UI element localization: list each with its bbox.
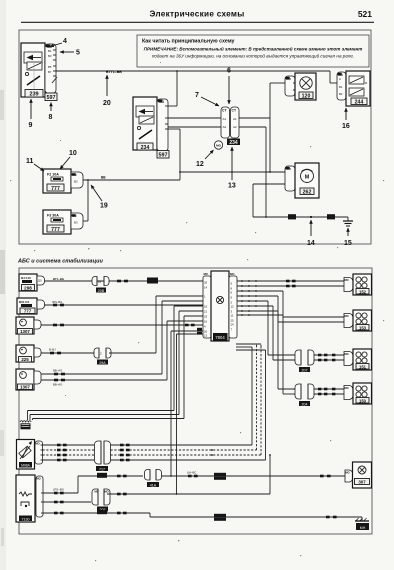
svg-text:6: 6	[227, 68, 231, 75]
svg-text:MO: MO	[345, 314, 349, 318]
svg-text:1307: 1307	[20, 385, 30, 390]
wire fuse F2 to relay net	[83, 176, 180, 181]
wires steering to CP2	[43, 444, 95, 462]
svg-text:15: 15	[344, 240, 352, 247]
svg-text:ПРИМЕЧАНИЕ: Вспомогательный эл: ПРИМЕЧАНИЕ: Вспомогательный элемент: В п…	[144, 46, 363, 52]
svg-text:A: A	[339, 77, 341, 81]
fuse F2 10A box 777	[43, 169, 71, 193]
callout 13	[228, 147, 236, 190]
svg-text:5: 5	[76, 50, 80, 57]
wheel sensor 1 box 152	[353, 274, 372, 295]
fuse F3 30A box 777	[43, 210, 71, 234]
svg-text:Электрические схемы: Электрические схемы	[149, 10, 244, 19]
svg-text:B3: B3	[74, 221, 78, 225]
wheel sensor 2 box 153	[353, 310, 372, 331]
callout 10	[60, 150, 77, 169]
ECU right pin strip	[229, 272, 237, 338]
ground symbol MH10	[20, 421, 31, 430]
svg-text:597: 597	[47, 95, 56, 101]
svg-text:24: 24	[231, 322, 235, 326]
svg-text:A2: A2	[223, 125, 227, 129]
ECU left pin strip	[203, 272, 211, 338]
steering angle sensor box	[17, 440, 35, 470]
wire CP_B east with corner up to ECU	[109, 296, 203, 353]
wire motor pin2 to rail	[253, 184, 285, 217]
callout 9	[29, 99, 33, 129]
wire L4 row to CP_B	[41, 348, 94, 355]
svg-text:14: 14	[204, 285, 208, 289]
svg-text:B2: B2	[74, 180, 78, 184]
svg-text:B3: B3	[48, 54, 52, 58]
svg-text:150: 150	[359, 398, 367, 403]
heater connector strip	[337, 72, 346, 100]
svg-text:B7: B7	[48, 70, 52, 74]
ECU left bottom stubs to steering risers	[170, 328, 203, 495]
ECU wire to CP_R4 row a	[237, 310, 296, 389]
ground bundle rows	[28, 306, 204, 420]
relay 239 body	[21, 43, 45, 97]
connector 597 label	[45, 93, 57, 101]
svg-text:1307: 1307	[20, 329, 30, 334]
225 connector bump	[34, 348, 41, 357]
wire CP5 east riser	[107, 454, 271, 495]
motor 262	[295, 163, 319, 198]
svg-text:204: 204	[302, 402, 308, 406]
svg-text:12: 12	[196, 161, 204, 168]
svg-text:8: 8	[49, 114, 53, 121]
ECU label 7804	[214, 334, 228, 341]
1307b connector bump	[34, 371, 41, 384]
lamp 120	[295, 73, 316, 100]
wire relay234 pin1 up to BTT1 net	[168, 71, 177, 106]
svg-text:151: 151	[359, 364, 367, 369]
connector pair CP2	[95, 441, 111, 471]
svg-text:A1: A1	[223, 117, 227, 121]
svg-text:A2: A2	[233, 125, 237, 129]
svg-text:13: 13	[228, 183, 236, 190]
steering sensor connector strip	[35, 441, 43, 464]
top schematic frame	[19, 30, 371, 244]
svg-text:10: 10	[69, 150, 77, 157]
svg-text:298: 298	[24, 286, 32, 291]
callout 14	[307, 220, 315, 247]
svg-text:225: 225	[21, 357, 29, 362]
ECU main box	[211, 271, 229, 341]
svg-text:MO: MO	[95, 490, 99, 494]
svg-text:F2 10A: F2 10A	[47, 173, 59, 177]
svg-text:7: 7	[195, 92, 199, 99]
svg-text:M08A: M08A	[21, 464, 31, 468]
bottom diagram frame	[19, 268, 372, 534]
callout 19	[91, 185, 108, 210]
yaw sensor connector strip	[36, 476, 44, 517]
svg-text:41A: 41A	[150, 483, 157, 487]
connector pair CP_B	[94, 348, 111, 365]
switch box 1307a	[16, 317, 34, 334]
wires CP2 east to vertical risers	[111, 444, 266, 462]
svg-text:B1: B1	[48, 49, 52, 53]
node MO circle	[214, 141, 222, 149]
svg-text:234: 234	[229, 140, 238, 146]
svg-text:307: 307	[358, 480, 366, 485]
svg-text:MO: MO	[345, 386, 349, 390]
svg-text:A1: A1	[233, 117, 237, 121]
svg-text:B–BJ: B–BJ	[49, 348, 56, 352]
fuse F3 connector bump	[71, 213, 83, 229]
wire yaw row2 to CP5	[44, 501, 92, 503]
switch box 1307b	[16, 369, 34, 390]
svg-text:MO: MO	[346, 471, 350, 475]
svg-text:АБС и система стабилизации: АБС и система стабилизации	[17, 258, 104, 265]
svg-text:120: 120	[302, 94, 311, 100]
svg-text:11: 11	[231, 313, 234, 317]
wires CP_R3 to wheel sensor 3	[314, 354, 345, 362]
wires CP_R4 to wheel sensor 4	[314, 388, 345, 396]
heater 244	[346, 71, 370, 106]
fuse 777b connector bump	[37, 300, 45, 309]
callout 7	[195, 92, 219, 106]
svg-text:12: 12	[231, 304, 235, 308]
header rule	[21, 21, 374, 23]
wire relay234 to connector CT pin A2	[168, 126, 222, 128]
svg-text:262: 262	[303, 190, 312, 196]
svg-text:20B: 20B	[98, 289, 105, 293]
svg-text:244: 244	[355, 100, 364, 106]
ground symbol bottom right	[355, 518, 369, 530]
wire relay234 pin4 down	[168, 129, 180, 180]
svg-text:LPS–BG: LPS–BG	[53, 488, 64, 492]
wires L5 rows with corners up to ECU	[41, 301, 203, 375]
svg-text:777: 777	[51, 227, 60, 233]
svg-text:IPN–BG: IPN–BG	[52, 300, 62, 304]
svg-text:521: 521	[358, 9, 372, 19]
svg-text:152: 152	[359, 289, 367, 294]
connector pair CP_R3	[295, 350, 314, 372]
wire relay239 to heater (net BTT1-BB)	[56, 70, 338, 83]
wire L2 row	[45, 300, 204, 307]
relay 234 connector strip 597	[157, 99, 168, 151]
svg-text:BT1–BG: BT1–BG	[53, 277, 64, 281]
wire motor pin1	[179, 171, 285, 173]
ECU wire to CP_R3 row b	[237, 305, 296, 360]
svg-text:597: 597	[159, 153, 168, 159]
svg-text:29A: 29A	[99, 361, 106, 365]
note box	[137, 35, 369, 67]
relay 234 label	[137, 143, 153, 151]
svg-text:2E: 2E	[98, 280, 102, 284]
callout 15	[344, 228, 352, 247]
svg-text:B2: B2	[339, 92, 343, 96]
svg-text:777: 777	[24, 309, 32, 314]
fuse 298 connector bump	[37, 276, 45, 285]
wire L3 row	[41, 324, 203, 327]
svg-text:717: 717	[99, 467, 105, 471]
svg-text:MH: MH	[360, 526, 366, 530]
connector pair CP_R4	[295, 384, 314, 406]
svg-text:11: 11	[26, 158, 34, 165]
svg-text:B51 K2: B51 K2	[19, 300, 30, 304]
wheel sensor 1 connector	[344, 278, 353, 292]
svg-text:MO: MO	[36, 442, 40, 446]
svg-text:BB–AG: BB–AG	[53, 369, 62, 373]
svg-text:M: M	[305, 174, 310, 180]
callout 16	[342, 108, 350, 130]
connector CT label 234	[227, 139, 240, 147]
callout 4	[50, 38, 67, 47]
svg-text:21: 21	[204, 309, 208, 313]
svg-text:MO: MO	[216, 144, 221, 148]
wire CT right pin1 to lamp and motor	[239, 83, 285, 172]
svg-text:MO: MO	[105, 490, 109, 494]
connector pair CP5	[92, 489, 110, 512]
unit 307 box	[353, 462, 372, 488]
switch box 225	[16, 345, 34, 362]
connector pair CP3	[145, 470, 162, 488]
risers steering wires to ECU bottom	[236, 344, 266, 460]
wheel sensor 2 connector	[344, 314, 353, 328]
svg-text:10: 10	[204, 304, 208, 308]
svg-text:MO: MO	[37, 477, 41, 481]
svg-text:BB–AG: BB–AG	[53, 382, 62, 386]
lamp connector	[285, 76, 296, 96]
svg-text:207: 207	[302, 368, 308, 372]
svg-text:20: 20	[103, 100, 111, 107]
svg-text:7130: 7130	[22, 517, 30, 521]
callout 11	[26, 158, 44, 171]
ECU right stub wires with dots	[237, 280, 344, 283]
svg-text:BTT1–BB: BTT1–BB	[106, 70, 122, 74]
svg-text:подает на 36У информацию, на о: подает на 36У информацию, на основании к…	[152, 53, 354, 59]
yaw rate sensor box	[16, 475, 35, 522]
svg-text:7804: 7804	[215, 335, 225, 340]
svg-text:16: 16	[204, 319, 208, 323]
ECU wire to wheel sensor 2 row b	[237, 295, 344, 322]
callout 20	[103, 75, 111, 107]
relay 239 label	[25, 90, 43, 98]
unit 307 connector bump	[345, 470, 353, 482]
fuse box 777b	[17, 298, 37, 314]
ground rail	[253, 214, 348, 219]
ECU wire to CP_R4 row b	[237, 314, 296, 394]
svg-text:B1: B1	[339, 85, 343, 89]
1307a connector bump	[34, 320, 41, 329]
svg-text:LM–BC: LM–BC	[187, 471, 196, 475]
callout 6	[227, 68, 231, 105]
svg-text:4: 4	[63, 38, 67, 45]
wire CT right pin2 to ground rail	[239, 127, 266, 217]
wheel sensor 3 connector	[344, 352, 353, 366]
connector pair CT/CT	[221, 107, 239, 138]
ground symbol top section	[343, 217, 353, 226]
svg-text:777: 777	[51, 186, 60, 192]
relay 239 connector strip 597	[45, 44, 57, 93]
wire L1 row	[45, 277, 204, 281]
wire fuse F3 junction	[83, 180, 88, 221]
wheel sensor 4 connector	[344, 386, 353, 400]
wire label ticks C1 row	[117, 278, 158, 284]
fuse box 298	[19, 274, 37, 291]
svg-text:B5: B5	[48, 65, 52, 69]
callout 12	[196, 150, 214, 168]
wheel sensor 3 box 151	[353, 349, 372, 370]
svg-text:239: 239	[29, 92, 38, 98]
svg-text:153: 153	[359, 325, 367, 330]
svg-text:16: 16	[342, 123, 350, 130]
ECU wire to wheel sensor 2 row a	[237, 290, 344, 317]
fuse F2 connector bump	[71, 172, 83, 188]
svg-text:26: 26	[204, 280, 208, 284]
wire relay234 to connector CT pin A1	[168, 117, 222, 119]
svg-text:F3 30A: F3 30A	[47, 214, 59, 218]
wheel sensor 4 box 150	[353, 383, 372, 404]
svg-text:23: 23	[204, 314, 208, 318]
motor connector	[285, 166, 295, 191]
callout 5	[60, 50, 80, 57]
wire yaw row3 to ground right	[44, 510, 363, 521]
connector pair C1	[92, 277, 109, 293]
svg-text:B4 F10: B4 F10	[21, 276, 31, 280]
svg-text:Как читать принципиальную схем: Как читать принципиальную схему	[142, 39, 235, 45]
relay 234 connector label 597	[157, 151, 169, 159]
wire CP3 to unit 307	[162, 471, 346, 480]
svg-text:13: 13	[204, 333, 208, 337]
svg-text:9: 9	[29, 122, 33, 129]
relay 234 body	[133, 97, 157, 150]
callout 8	[49, 103, 53, 122]
svg-text:234: 234	[141, 145, 150, 151]
svg-text:BB: BB	[101, 176, 106, 180]
svg-text:MO: MO	[345, 278, 349, 282]
wire yaw row1 to CP3	[44, 473, 144, 495]
svg-text:110: 110	[38, 279, 43, 283]
svg-text:MO: MO	[345, 352, 349, 356]
ECU wire to CP_R3 row a	[237, 300, 296, 355]
svg-text:19: 19	[100, 203, 108, 210]
svg-text:14: 14	[307, 240, 315, 247]
